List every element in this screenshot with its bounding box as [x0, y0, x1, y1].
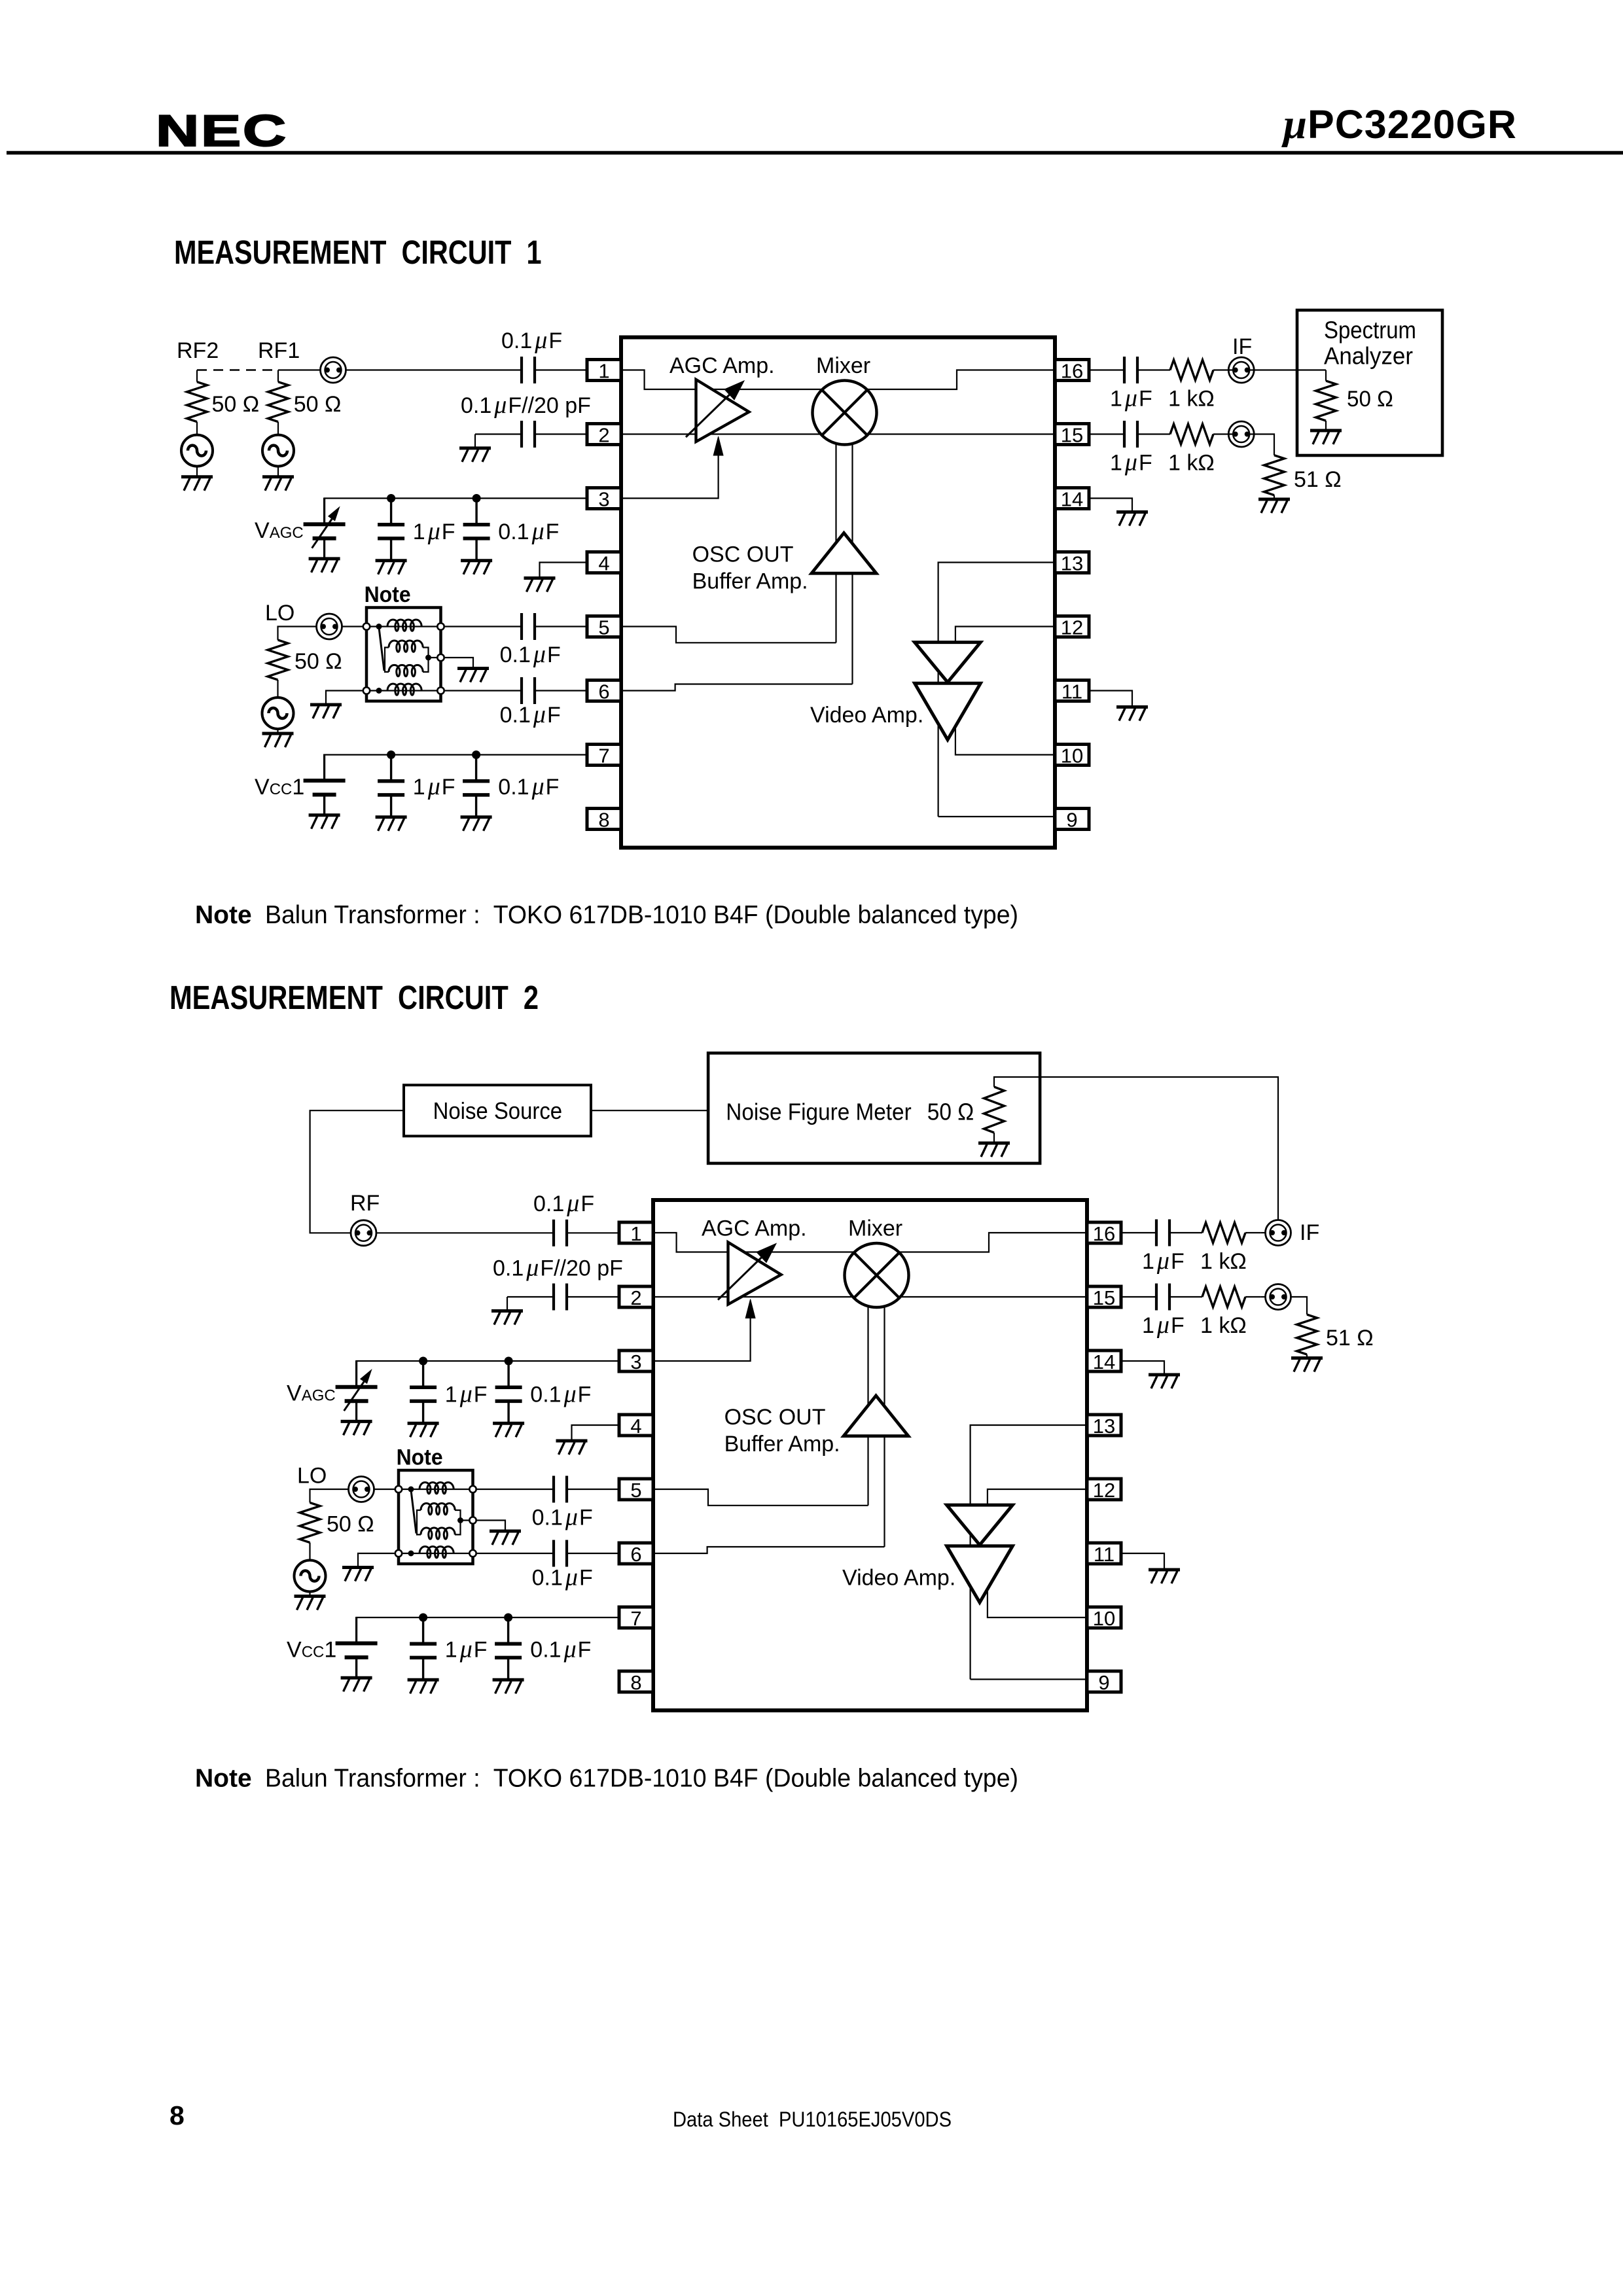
- C2 label 0.1uF (pin1): [533, 1190, 594, 1217]
- C2 ground (LO source): [294, 1597, 326, 1610]
- C1 pin 11: [1055, 680, 1089, 703]
- C2 label AGC Amp.: [702, 1216, 807, 1241]
- C2 label 1 kOhm (pin16): [1200, 1249, 1247, 1274]
- C1 ground (LO source): [262, 733, 294, 747]
- C1 label 50 Ohm (RF1): [294, 392, 342, 417]
- svg-text:VAGC: VAGC: [255, 518, 304, 543]
- note 1 text: [195, 901, 1018, 929]
- C1 pin 7: [587, 745, 621, 768]
- C1 label 0.1uF//20pF: [461, 391, 591, 419]
- svg-text:3: 3: [598, 488, 609, 511]
- C1 ground (balun primary): [310, 691, 363, 719]
- C1 label 0.1uF (pin6): [500, 701, 561, 728]
- C2 label 0.1uF//20pF: [493, 1254, 623, 1282]
- C1 ground (RF1 source): [262, 477, 294, 491]
- C1 label Spectrum: [1324, 317, 1416, 344]
- C2 label 0.1uF (VAGC): [530, 1381, 591, 1408]
- svg-text:VCC1: VCC1: [255, 775, 304, 800]
- C1 AC source (LO): [262, 680, 294, 733]
- C1 wire video amp to pin10: [955, 725, 1055, 755]
- C1 wire pin12 to video amp: [955, 627, 1055, 645]
- C2 wire noise source to meter: [591, 1110, 708, 1111]
- C2 wire LO to balun: [374, 1489, 397, 1490]
- svg-text:MEASUREMENT CIRCUIT 1: MEASUREMENT CIRCUIT 1: [174, 234, 542, 271]
- C2 pin 8: [619, 1671, 653, 1694]
- C1 resistor 50 Ohm (LO): [268, 640, 288, 680]
- C2 video amp triangle 2: [947, 1546, 1013, 1602]
- C2 connector IF coax (pin15): [1260, 1284, 1291, 1310]
- C1 video amp triangle 1: [915, 643, 981, 682]
- C1 spectrum analyzer box: [1297, 310, 1442, 455]
- svg-text:Balun Transformer : TOKO 617D: Balun Transformer : TOKO 617DB-1010 B4F …: [265, 901, 1018, 929]
- svg-text:1μF: 1μF: [413, 518, 455, 545]
- svg-text:0.1μF: 0.1μF: [498, 518, 559, 545]
- C1 label AGC Amp.: [669, 353, 775, 378]
- C2 connector LO coax: [349, 1477, 374, 1502]
- C2 label 51 Ohm: [1326, 1326, 1374, 1351]
- heading MEASUREMENT CIRCUIT 2: [169, 979, 539, 1016]
- svg-text:0.1μF//20 pF: 0.1μF//20 pF: [493, 1254, 623, 1282]
- C2 wire VCC1 rail: [357, 1617, 619, 1643]
- svg-text:7: 7: [630, 1607, 641, 1630]
- C2 ground (balun center tap): [477, 1521, 521, 1545]
- C1 label Note (balun): [365, 582, 411, 607]
- svg-text:8: 8: [169, 2100, 185, 2130]
- C2 capacitor 0.1uF (VCC1): [493, 1614, 524, 1694]
- C2 pin 10: [1087, 1607, 1121, 1630]
- C1 label RF1: [258, 338, 300, 363]
- svg-text:12: 12: [1093, 1479, 1115, 1502]
- C1 label 50 Ohm (LO): [294, 649, 342, 674]
- C2 wire video amp to pin10: [988, 1588, 1087, 1618]
- svg-text:Analyzer: Analyzer: [1324, 343, 1413, 370]
- C1 AC source (RF2): [181, 435, 213, 477]
- svg-text:Mixer: Mixer: [816, 353, 870, 378]
- svg-text:1μF: 1μF: [445, 1636, 488, 1663]
- heading MEASUREMENT CIRCUIT 1: [174, 234, 542, 271]
- C2 pin4 ground: [556, 1425, 620, 1455]
- C1 label 0.1uF (VAGC): [498, 518, 559, 545]
- C2 resistor 1 kOhm (pin15): [1169, 1287, 1260, 1307]
- C1 wire pin13 to video amp: [938, 563, 1055, 817]
- C2 wire pin6 to mixer LO: [653, 1547, 885, 1553]
- C1 ground (spectrum analyzer): [1310, 431, 1342, 444]
- C1 capacitor 1uF (pin15): [1089, 421, 1137, 448]
- C1 wire pin2 to mixer (lower rail): [621, 433, 821, 434]
- C1 pin 1: [587, 360, 621, 383]
- svg-text:9: 9: [1098, 1671, 1109, 1694]
- svg-text:0.1μF//20 pF: 0.1μF//20 pF: [461, 391, 591, 419]
- C1 capacitor 1uF (VCC1): [376, 751, 407, 831]
- C1 dashed wire RF2 to RF1: [197, 369, 278, 370]
- C1 pin 12: [1055, 616, 1089, 639]
- svg-text:5: 5: [630, 1479, 641, 1502]
- svg-text:IF: IF: [1232, 334, 1252, 359]
- C2 wire pin2 to mixer (lower rail): [653, 1296, 853, 1298]
- C2 capacitor VCC1 bypass: [336, 1617, 378, 1691]
- C2 pin 9: [1087, 1671, 1121, 1694]
- C1 label VAGC: [255, 518, 304, 543]
- svg-text:1μF: 1μF: [1142, 1247, 1185, 1275]
- svg-text:4: 4: [598, 552, 609, 575]
- svg-text:16: 16: [1061, 360, 1083, 383]
- C1 pin 14: [1055, 488, 1089, 511]
- C2 wire noise source to RF: [310, 1110, 404, 1233]
- svg-text:51 Ω: 51 Ω: [1326, 1326, 1374, 1351]
- NEC logo: [156, 106, 288, 156]
- C1 connector RF coax: [321, 357, 346, 383]
- C1 mixer circle: [813, 381, 877, 445]
- svg-text:50 Ω: 50 Ω: [212, 392, 260, 417]
- C1 wire mixer to pin15 (lower rail): [868, 433, 1056, 434]
- C2 pin 4: [619, 1415, 653, 1438]
- svg-text:1μF: 1μF: [1110, 449, 1152, 476]
- C1 label 50 Ohm (RF2): [212, 392, 260, 417]
- svg-text:IF: IF: [1300, 1220, 1319, 1245]
- C2 label 1uF (pin16): [1142, 1247, 1185, 1275]
- C2 label Note (balun): [397, 1445, 443, 1470]
- C2 capacitor 1uF (pin16): [1121, 1220, 1169, 1246]
- C2 label Noise Figure Meter: [726, 1099, 911, 1125]
- C2 ground (51 Ohm): [1291, 1358, 1323, 1372]
- C2 label 1uF (VAGC): [445, 1381, 488, 1408]
- C2 pin14 ground: [1121, 1361, 1180, 1388]
- C1 label Mixer: [816, 353, 870, 378]
- C1 pin 2: [587, 424, 621, 447]
- svg-text:μPC3220GR: μPC3220GR: [1281, 101, 1517, 148]
- C2 label 50 Ohm (meter): [927, 1099, 974, 1125]
- svg-text:12: 12: [1061, 616, 1083, 639]
- C1 video amp triangle 2: [915, 683, 981, 739]
- C2 connector RF coax: [351, 1220, 376, 1246]
- C2 AGC amp triangle: [718, 1243, 781, 1305]
- C2 label 1 kOhm (pin15): [1200, 1313, 1247, 1338]
- C2 resistor 50 Ohm (LO): [300, 1503, 320, 1543]
- C1 label IF: [1232, 334, 1252, 359]
- C1 OSC OUT buffer amp triangle: [811, 533, 876, 574]
- C1 label Analyzer: [1324, 343, 1413, 370]
- svg-text:RF: RF: [350, 1191, 380, 1216]
- svg-text:8: 8: [598, 809, 609, 832]
- C2 capacitor 1uF (VCC1): [408, 1614, 439, 1694]
- C1 label 0.1uF (VCC1): [498, 773, 559, 800]
- C1 pin 4: [587, 552, 621, 575]
- C2 label IF: [1300, 1220, 1319, 1245]
- svg-text:10: 10: [1093, 1607, 1115, 1630]
- C1 ground (pin2 input): [459, 448, 491, 462]
- svg-text:0.1μF: 0.1μF: [530, 1381, 591, 1408]
- C2 connector IF coax (pin16): [1260, 1220, 1291, 1246]
- C2 pin 11: [1087, 1543, 1121, 1566]
- C1 connector LO coax: [317, 614, 342, 639]
- C1 resistor 50 Ohm (spectrum analyzer): [1316, 370, 1336, 431]
- C1 label VCC1: [255, 775, 304, 800]
- C2 label Mixer: [848, 1216, 902, 1241]
- C2 wire pin13 to video amp: [971, 1425, 1087, 1680]
- svg-text:0.1μF: 0.1μF: [498, 773, 559, 800]
- C2 pin 13: [1087, 1415, 1121, 1438]
- C2 wire VAGC rail: [357, 1361, 619, 1386]
- C2 pin 5: [619, 1479, 653, 1502]
- C1 label RF2: [177, 338, 219, 363]
- svg-text:0.1μF: 0.1μF: [501, 327, 562, 354]
- note 2 text: [195, 1765, 1018, 1793]
- svg-text:AGC Amp.: AGC Amp.: [702, 1216, 807, 1241]
- svg-text:5: 5: [598, 616, 609, 639]
- svg-text:14: 14: [1061, 488, 1083, 511]
- C2 resistor 51 Ohm: [1291, 1297, 1317, 1358]
- svg-text:15: 15: [1093, 1286, 1115, 1309]
- svg-text:LO: LO: [265, 601, 294, 626]
- C2 wire pin3 AGC control with arrow: [653, 1299, 755, 1362]
- C1 pin 8: [587, 809, 621, 832]
- svg-text:1 kΩ: 1 kΩ: [1200, 1249, 1247, 1274]
- C2 capacitor 1uF (pin15): [1121, 1284, 1169, 1311]
- C1 wire video amp to pin9: [938, 816, 1055, 817]
- C1 wire mixer LO left vertical: [835, 442, 836, 643]
- svg-text:8: 8: [630, 1671, 641, 1694]
- C2 wire mixer LO right vertical: [883, 1305, 885, 1547]
- C1 ground (RF2 source): [181, 477, 213, 491]
- header rule: [7, 151, 1623, 155]
- C2 resistor 1 kOhm (pin16): [1169, 1223, 1260, 1243]
- C1 pin 15: [1055, 424, 1089, 447]
- svg-text:13: 13: [1061, 552, 1083, 575]
- C1 ground (balun center tap): [445, 658, 489, 682]
- svg-text:Noise Figure Meter: Noise Figure Meter: [726, 1099, 911, 1125]
- C1 balun transformer (Note): [363, 608, 444, 701]
- svg-text:9: 9: [1066, 809, 1077, 832]
- C1 pin 5: [587, 616, 621, 639]
- C2 capacitor 0.1uF (pin6): [477, 1540, 619, 1567]
- svg-text:6: 6: [598, 680, 609, 703]
- C1 pin 13: [1055, 552, 1089, 575]
- C2 capacitor 0.1uF (pin1): [376, 1220, 619, 1246]
- C1 label 0.1uF (pin5): [500, 641, 561, 668]
- C1 wire LO source: [278, 627, 317, 641]
- C1 label 1 kOhm (pin15): [1168, 451, 1215, 476]
- svg-text:1 kΩ: 1 kΩ: [1168, 451, 1215, 476]
- C2 pin 14: [1087, 1351, 1121, 1373]
- C1 wire mixer out to pin16: [868, 370, 1056, 390]
- C2 label LO: [297, 1464, 327, 1489]
- svg-text:1 kΩ: 1 kΩ: [1200, 1313, 1247, 1338]
- C1 capacitor 0.1uF//20pF (pin2): [475, 421, 587, 448]
- C2 pin 2: [619, 1286, 653, 1309]
- C2 wire mixer out to pin16: [900, 1233, 1088, 1252]
- C2 ground (pin2 input): [491, 1311, 523, 1325]
- C2 AC source (LO): [294, 1543, 326, 1597]
- C1 wire LO to balun: [342, 626, 365, 627]
- footer Data Sheet PU10165EJ05V0DS: [673, 2108, 952, 2131]
- C1 resistor 50 Ohm (RF1): [268, 370, 289, 435]
- C2 label 0.1uF (pin6): [532, 1564, 593, 1591]
- C2 pin 7: [619, 1607, 653, 1630]
- C1 variable capacitor VAGC: [304, 498, 346, 573]
- C1 connector IF coax (pin15): [1228, 421, 1254, 447]
- svg-text:10: 10: [1061, 745, 1083, 768]
- C1 pin4 ground: [524, 563, 588, 592]
- svg-text:14: 14: [1093, 1351, 1115, 1373]
- svg-text:7: 7: [598, 745, 609, 768]
- svg-text:0.1μF: 0.1μF: [500, 701, 561, 728]
- C2 wire mixer LO left vertical: [867, 1305, 868, 1506]
- C1 label 1uF (pin16): [1110, 385, 1152, 412]
- C1 AGC amp triangle: [686, 380, 749, 442]
- C2 OSC OUT buffer amp triangle: [844, 1396, 908, 1436]
- C1 label 1uF (pin15): [1110, 449, 1152, 476]
- C2 pin 1: [619, 1222, 653, 1245]
- C2 ground (balun primary): [342, 1553, 395, 1581]
- svg-text:Mixer: Mixer: [848, 1216, 902, 1241]
- C2 label RF: [350, 1191, 380, 1216]
- C2 pin 12: [1087, 1479, 1121, 1502]
- svg-text:50 Ω: 50 Ω: [294, 392, 342, 417]
- C1 capacitor 1uF (VAGC): [376, 494, 407, 574]
- svg-text:4: 4: [630, 1415, 641, 1438]
- svg-text:Note: Note: [195, 1765, 252, 1793]
- C2 wire pin1 to AGC amp input: [653, 1233, 853, 1252]
- C1 capacitor 0.1uF (VAGC): [461, 494, 492, 574]
- C2 capacitor 1uF (VAGC): [408, 1357, 439, 1438]
- C1 wire mixer LO right vertical: [851, 442, 853, 684]
- svg-text:16: 16: [1093, 1222, 1115, 1245]
- C1 wire VAGC rail: [325, 499, 587, 524]
- C1 pin11 ground: [1089, 691, 1148, 721]
- C2 IC body uPC3220GR: [653, 1200, 1087, 1710]
- C2 noise source box: [404, 1085, 591, 1136]
- svg-text:1μF: 1μF: [1142, 1311, 1185, 1339]
- svg-text:0.1μF: 0.1μF: [500, 641, 561, 668]
- svg-text:Note: Note: [365, 582, 411, 607]
- C2 pin11 ground: [1121, 1553, 1180, 1583]
- svg-text:50 Ω: 50 Ω: [927, 1099, 974, 1125]
- C1 label Video Amp.: [810, 703, 923, 728]
- svg-text:1: 1: [598, 360, 609, 383]
- C2 capacitor 0.1uF (VAGC): [493, 1357, 524, 1438]
- C1 pin14 ground: [1089, 499, 1148, 526]
- C2 label Buffer Amp.: [724, 1432, 840, 1457]
- svg-text:50 Ω: 50 Ω: [327, 1512, 374, 1537]
- C1 resistor 1 kOhm (pin16): [1137, 360, 1228, 380]
- C1 wire pin6 to mixer LO: [621, 684, 853, 691]
- svg-text:50 Ω: 50 Ω: [1347, 387, 1393, 412]
- C1 wire pin5 to buffer amp: [621, 627, 836, 643]
- C1 capacitor 0.1uF (pin1): [346, 357, 588, 383]
- svg-text:13: 13: [1093, 1415, 1115, 1438]
- C2 video amp triangle 1: [947, 1505, 1013, 1545]
- C2 capacitor 0.1uF (pin5): [477, 1476, 619, 1503]
- svg-text:0.1μF: 0.1μF: [532, 1504, 593, 1531]
- svg-text:LO: LO: [297, 1464, 327, 1489]
- C1 resistor 1 kOhm (pin15): [1137, 424, 1228, 444]
- C1 label 50 Ohm (spectrum analyzer): [1347, 387, 1393, 412]
- svg-text:VCC1: VCC1: [287, 1638, 336, 1663]
- C1 label 1 kOhm (pin16): [1168, 387, 1215, 412]
- C2 balun transformer (Note): [395, 1470, 476, 1564]
- svg-text:1: 1: [630, 1222, 641, 1245]
- C2 label VCC1: [287, 1638, 336, 1663]
- svg-text:1 kΩ: 1 kΩ: [1168, 387, 1215, 412]
- C2 label VAGC: [287, 1381, 336, 1406]
- svg-text:RF1: RF1: [258, 338, 300, 363]
- C1 ground (51 Ohm): [1258, 499, 1290, 513]
- svg-text:1μF: 1μF: [445, 1381, 488, 1408]
- svg-text:Video Amp.: Video Amp.: [810, 703, 923, 728]
- svg-text:OSC OUT: OSC OUT: [692, 542, 794, 567]
- svg-text:RF2: RF2: [177, 338, 219, 363]
- C1 label 1uF (VAGC): [413, 518, 455, 545]
- svg-text:2: 2: [598, 424, 609, 447]
- C2 wire LO source: [310, 1489, 349, 1503]
- svg-text:Noise Source: Noise Source: [433, 1097, 563, 1124]
- C2 capacitor 0.1uF//20pF (pin2): [507, 1284, 619, 1311]
- C1 capacitor 1uF (pin16): [1089, 357, 1137, 383]
- svg-text:Video Amp.: Video Amp.: [842, 1565, 955, 1590]
- svg-text:Spectrum: Spectrum: [1324, 317, 1416, 344]
- C2 label Video Amp.: [842, 1565, 955, 1590]
- svg-text:0.1μF: 0.1μF: [533, 1190, 594, 1217]
- svg-text:11: 11: [1094, 1543, 1115, 1566]
- svg-text:NEC: NEC: [156, 106, 288, 156]
- svg-text:Buffer Amp.: Buffer Amp.: [692, 569, 808, 593]
- C2 label 1uF (pin15): [1142, 1311, 1185, 1339]
- C1 label 1uF (VCC1): [413, 773, 455, 800]
- C2 pin 15: [1087, 1286, 1121, 1309]
- C2 label 0.1uF (pin5): [532, 1504, 593, 1531]
- svg-text:3: 3: [630, 1351, 641, 1373]
- C1 label Buffer Amp.: [692, 569, 808, 593]
- C1 capacitor 0.1uF (pin5): [445, 613, 587, 640]
- C2 ground (meter): [978, 1143, 1010, 1157]
- C1 capacitor 0.1uF (VCC1): [461, 751, 492, 831]
- C1 label OSC OUT: [692, 542, 794, 567]
- C2 wire video amp to pin9: [971, 1678, 1087, 1680]
- svg-text:0.1μF: 0.1μF: [532, 1564, 593, 1591]
- C1 label 51 Ohm: [1294, 467, 1342, 492]
- svg-text:11: 11: [1061, 680, 1082, 703]
- C2 label OSC OUT: [724, 1405, 826, 1430]
- C1 connector IF coax (pin16): [1228, 357, 1326, 383]
- svg-text:15: 15: [1061, 424, 1083, 447]
- svg-text:Balun Transformer : TOKO 617D: Balun Transformer : TOKO 617DB-1010 B4F …: [265, 1765, 1018, 1793]
- C2 pin 16: [1087, 1222, 1121, 1245]
- C2 wire mixer to pin15 (lower rail): [900, 1296, 1088, 1298]
- C1 pin 9: [1055, 809, 1089, 832]
- svg-text:0.1μF: 0.1μF: [530, 1636, 591, 1663]
- C1 IC body uPC3220GR: [621, 338, 1055, 848]
- C1 pin 3: [587, 488, 621, 511]
- C2 label 50 Ohm (LO): [327, 1512, 374, 1537]
- C1 capacitor 0.1uF (pin6): [445, 677, 587, 704]
- svg-text:51 Ω: 51 Ω: [1294, 467, 1342, 492]
- svg-text:Buffer Amp.: Buffer Amp.: [724, 1432, 840, 1457]
- C2 noise figure meter box: [708, 1053, 1040, 1163]
- C1 resistor 51 Ohm: [1254, 434, 1284, 500]
- C2 wire pin12 to video amp: [988, 1489, 1087, 1507]
- svg-text:OSC OUT: OSC OUT: [724, 1405, 826, 1430]
- C1 resistor 50 Ohm (RF2): [187, 370, 207, 435]
- C2 pin 3: [619, 1351, 653, 1373]
- svg-text:6: 6: [630, 1543, 641, 1566]
- svg-text:50 Ω: 50 Ω: [294, 649, 342, 674]
- svg-text:2: 2: [630, 1286, 641, 1309]
- C1 wire VCC1 rail: [325, 755, 587, 781]
- C1 pin 10: [1055, 745, 1089, 768]
- C2 label 0.1uF (VCC1): [530, 1636, 591, 1663]
- C2 variable capacitor VAGC: [336, 1360, 378, 1435]
- svg-text:VAGC: VAGC: [287, 1381, 336, 1406]
